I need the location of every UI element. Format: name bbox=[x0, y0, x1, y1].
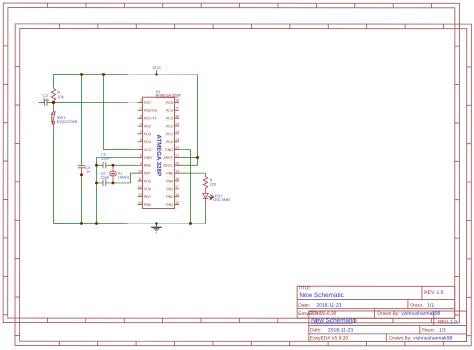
svg-text:PC2: PC2 bbox=[166, 124, 173, 128]
svg-text:22: 22 bbox=[175, 146, 179, 150]
svg-text:vishnusharmak98: vishnusharmak98 bbox=[413, 335, 452, 341]
svg-text:VCC: VCC bbox=[152, 65, 161, 70]
junction top rail C4 bbox=[80, 73, 83, 76]
svg-text:Sheet:: Sheet: bbox=[410, 303, 423, 308]
svg-text:PD6: PD6 bbox=[144, 187, 151, 191]
title block 2 title underline bbox=[311, 322, 353, 324]
svg-text:11: 11 bbox=[138, 177, 142, 181]
svg-text:12: 12 bbox=[138, 185, 142, 189]
title block 2 text cursor bbox=[355, 318, 357, 323]
svg-text:VCC: VCC bbox=[144, 148, 152, 152]
svg-text:9: 9 bbox=[140, 161, 142, 165]
U1 reference designator bbox=[156, 90, 182, 98]
svg-text:21: 21 bbox=[175, 154, 179, 158]
svg-text:24: 24 bbox=[175, 130, 179, 134]
wire VCC top rail bbox=[54, 73, 198, 75]
title block 1 DrawnBy divider bbox=[373, 309, 375, 319]
title block 2 texts bbox=[310, 310, 457, 341]
wire C3 left lead bbox=[39, 101, 45, 103]
wire pin22 GND right then down to ground rail bbox=[179, 150, 191, 224]
svg-text:PB6: PB6 bbox=[144, 164, 151, 168]
title block 1 box bbox=[297, 286, 455, 318]
svg-text:19: 19 bbox=[175, 169, 179, 173]
wire VCC rail to C4 top bbox=[81, 74, 83, 165]
U1 left pin labels bbox=[144, 101, 158, 207]
junction dots bbox=[52, 73, 199, 225]
svg-text:1/1: 1/1 bbox=[439, 328, 446, 334]
capacitor C5 plates bbox=[103, 162, 106, 168]
svg-text:REV:: REV: bbox=[424, 290, 435, 296]
U1 right pins 28-15 bbox=[174, 102, 179, 204]
svg-text:Sheet:: Sheet: bbox=[422, 327, 435, 332]
svg-text:TITLE:: TITLE: bbox=[299, 285, 312, 290]
crystal X1 leads bbox=[112, 165, 114, 183]
svg-text:ATMEGA 328P: ATMEGA 328P bbox=[155, 135, 162, 177]
svg-text:20: 20 bbox=[175, 161, 179, 165]
svg-text:RST: RST bbox=[144, 101, 152, 105]
svg-text:13: 13 bbox=[138, 193, 142, 197]
title block 1 Sheet divider bbox=[407, 299, 409, 308]
svg-text:vishnusharmak98: vishnusharmak98 bbox=[401, 311, 440, 317]
title block 2 box bbox=[309, 311, 467, 341]
junction ground rail xtal gnd bbox=[95, 222, 98, 225]
svg-text:PC1: PC1 bbox=[166, 132, 173, 136]
wire R1 bottom to node RST bbox=[53, 101, 55, 103]
LED1 symbol bbox=[203, 193, 209, 198]
net flag GND ground symbol bbox=[151, 222, 162, 232]
svg-text:1.0: 1.0 bbox=[450, 320, 457, 326]
svg-text:PC5: PC5 bbox=[166, 101, 173, 105]
U1 right pin labels bbox=[163, 101, 174, 207]
frame 2 zone ticks left bbox=[15, 67, 20, 336]
wire pin19 PB5 to LED column bbox=[179, 173, 206, 176]
svg-text:25: 25 bbox=[175, 122, 179, 126]
wire VCC rail down to pin7 VCC bbox=[104, 74, 138, 149]
svg-text:Date:: Date: bbox=[310, 327, 322, 333]
crystal X1 body bbox=[110, 172, 116, 176]
svg-text:2: 2 bbox=[140, 107, 142, 111]
svg-text:10u: 10u bbox=[42, 97, 49, 102]
wire SW1 bottom to ground rail bbox=[52, 128, 54, 223]
wire pin8 GND left then down bbox=[96, 157, 137, 223]
title block 1 texts bbox=[298, 285, 443, 317]
wire LED1 cathode to ground rail bbox=[204, 212, 206, 224]
wire C4 bottom to ground rail bbox=[80, 175, 82, 224]
svg-text:PD2: PD2 bbox=[144, 124, 151, 128]
svg-text:1u: 1u bbox=[86, 169, 90, 174]
junction XTAL2 left bbox=[95, 181, 98, 184]
svg-text:17: 17 bbox=[175, 185, 179, 189]
svg-text:28: 28 bbox=[175, 99, 179, 103]
wire ground bottom rail bbox=[53, 222, 205, 224]
junction top rail VCC flag bbox=[155, 73, 157, 75]
junction XTAL2 X1 bbox=[112, 181, 115, 184]
svg-text:22pF: 22pF bbox=[101, 157, 110, 161]
COMPONENTS bbox=[45, 88, 214, 212]
svg-text:PD4: PD4 bbox=[144, 140, 151, 144]
svg-text:6: 6 bbox=[140, 138, 142, 142]
svg-text:PD3: PD3 bbox=[144, 132, 151, 136]
svg-text:Date:: Date: bbox=[298, 303, 310, 309]
svg-text:5: 5 bbox=[140, 130, 142, 134]
svg-text:18: 18 bbox=[175, 177, 179, 181]
svg-text:26: 26 bbox=[175, 114, 179, 118]
wire node RST to pin1 RST bbox=[54, 101, 138, 103]
IC U1 body bbox=[137, 97, 179, 208]
U1 left pin numbers bbox=[138, 99, 142, 205]
component value labels bbox=[42, 90, 230, 202]
svg-text:EasyEDA V5.8.20: EasyEDA V5.8.20 bbox=[310, 335, 348, 341]
wire pin20 AVCC to VCC column bbox=[179, 164, 198, 166]
svg-text:New Schematic: New Schematic bbox=[299, 292, 344, 299]
junction XTAL1 X1 bbox=[112, 164, 115, 167]
svg-text:PB1: PB1 bbox=[166, 203, 173, 207]
wire VCC right column bbox=[197, 74, 199, 165]
junction XTAL1 left bbox=[95, 164, 98, 167]
frame 2 zone ticks top bbox=[59, 24, 443, 29]
svg-text:PC4: PC4 bbox=[166, 109, 173, 113]
svg-text:27: 27 bbox=[175, 107, 179, 111]
svg-text:16: 16 bbox=[175, 193, 179, 197]
svg-text:PD7: PD7 bbox=[144, 195, 151, 199]
svg-text:10: 10 bbox=[138, 169, 142, 173]
svg-text:PC0: PC0 bbox=[166, 140, 173, 144]
svg-text:10k: 10k bbox=[57, 94, 63, 99]
frame 1 zone ticks right bbox=[455, 46, 460, 315]
svg-text:8: 8 bbox=[140, 154, 142, 158]
wire node RST to SW1 top bbox=[53, 102, 55, 111]
R2 to LED1 red lead bbox=[204, 188, 206, 193]
wire XTAL1 line pin9 PB6 bbox=[97, 164, 138, 166]
junction C4 bottom bbox=[80, 173, 83, 176]
svg-text:EVQ22705R: EVQ22705R bbox=[57, 120, 78, 124]
svg-text:2018-11-23: 2018-11-23 bbox=[328, 327, 353, 333]
svg-text:1.0: 1.0 bbox=[436, 290, 443, 296]
svg-text:PB7: PB7 bbox=[144, 172, 151, 176]
frame 1 zone ticks left bbox=[3, 46, 8, 315]
junction ground rail C4 bbox=[80, 222, 83, 225]
resistor R2 220 zigzag bbox=[203, 176, 207, 188]
frame 1 zone ticks bottom bbox=[47, 318, 431, 323]
svg-text:15: 15 bbox=[175, 201, 179, 205]
junction AREF VCC column bbox=[196, 156, 199, 159]
svg-text:PD1-TX: PD1-TX bbox=[144, 117, 157, 121]
svg-text:Drawn By:: Drawn By: bbox=[377, 311, 399, 317]
resistor R1 10k zigzag bbox=[51, 88, 55, 100]
svg-text:23: 23 bbox=[175, 138, 179, 142]
capacitor C4 bottom lead bbox=[81, 168, 83, 175]
title block 2 DrawnBy divider bbox=[385, 334, 387, 342]
frame 1 zone ticks top bbox=[48, 3, 432, 8]
svg-text:PB3: PB3 bbox=[166, 187, 173, 191]
svg-text:LED-3MM: LED-3MM bbox=[213, 198, 230, 202]
capacitor C3 plates bbox=[45, 99, 47, 106]
svg-text:22pF: 22pF bbox=[101, 176, 110, 180]
LED1 cathode lead bbox=[204, 198, 206, 212]
capacitor C6 plates bbox=[103, 180, 106, 186]
svg-text:7: 7 bbox=[140, 146, 142, 150]
wire C3 right lead to node RST bbox=[47, 101, 54, 103]
U1 left pins 1-14 bbox=[137, 102, 142, 204]
svg-text:GND: GND bbox=[144, 156, 152, 160]
net flag VCC bbox=[152, 65, 161, 74]
svg-text:PB4: PB4 bbox=[166, 179, 173, 183]
junction top rail U1 VCC riser bbox=[102, 73, 105, 76]
title block 2 REV divider bbox=[433, 311, 435, 326]
svg-text:PD0-RX: PD0-RX bbox=[144, 109, 158, 113]
svg-text:Drawn By:: Drawn By: bbox=[389, 335, 411, 341]
svg-text:TITLE:: TITLE: bbox=[310, 310, 323, 315]
svg-text:PD5: PD5 bbox=[144, 179, 151, 183]
title block 1 REV divider bbox=[421, 286, 423, 299]
svg-text:AREF: AREF bbox=[163, 156, 173, 160]
wire pin21 AREF to VCC column bbox=[179, 156, 198, 158]
junction node RST bbox=[52, 101, 55, 104]
svg-text:PB5: PB5 bbox=[166, 172, 173, 176]
svg-text:ATMEGA 328P: ATMEGA 328P bbox=[156, 94, 182, 98]
LED1 arrows bbox=[209, 196, 212, 199]
svg-text:3: 3 bbox=[140, 114, 142, 118]
capacitor C4 plates bbox=[78, 166, 85, 168]
WIRES bbox=[38, 74, 205, 223]
junction ground rail pin22 gnd bbox=[189, 222, 192, 225]
svg-text:AVCC: AVCC bbox=[163, 164, 173, 168]
svg-text:PB0: PB0 bbox=[144, 203, 151, 207]
wire XTAL2 line to pin10 PB7 bbox=[96, 173, 137, 183]
U1 right pin numbers bbox=[175, 99, 179, 205]
svg-text:PB2: PB2 bbox=[166, 195, 173, 199]
title block 2 Sheet divider bbox=[419, 325, 421, 333]
svg-text:4: 4 bbox=[140, 122, 142, 126]
switch SW1 bbox=[52, 112, 54, 114]
svg-text:1: 1 bbox=[140, 99, 142, 103]
svg-text:1/1: 1/1 bbox=[427, 303, 434, 309]
frame 2 zone ticks right bbox=[467, 67, 472, 336]
svg-text:PC3: PC3 bbox=[166, 117, 173, 121]
svg-text:16MHz: 16MHz bbox=[118, 175, 130, 179]
svg-text:GND: GND bbox=[165, 148, 173, 152]
svg-text:REV:: REV: bbox=[438, 320, 449, 326]
svg-text:220: 220 bbox=[210, 183, 216, 187]
frame 2 zone ticks bottom bbox=[59, 341, 443, 346]
svg-text:14: 14 bbox=[138, 201, 142, 205]
wire R1 top lead to rail bbox=[53, 74, 55, 88]
svg-text:2018-11-23: 2018-11-23 bbox=[316, 303, 341, 309]
